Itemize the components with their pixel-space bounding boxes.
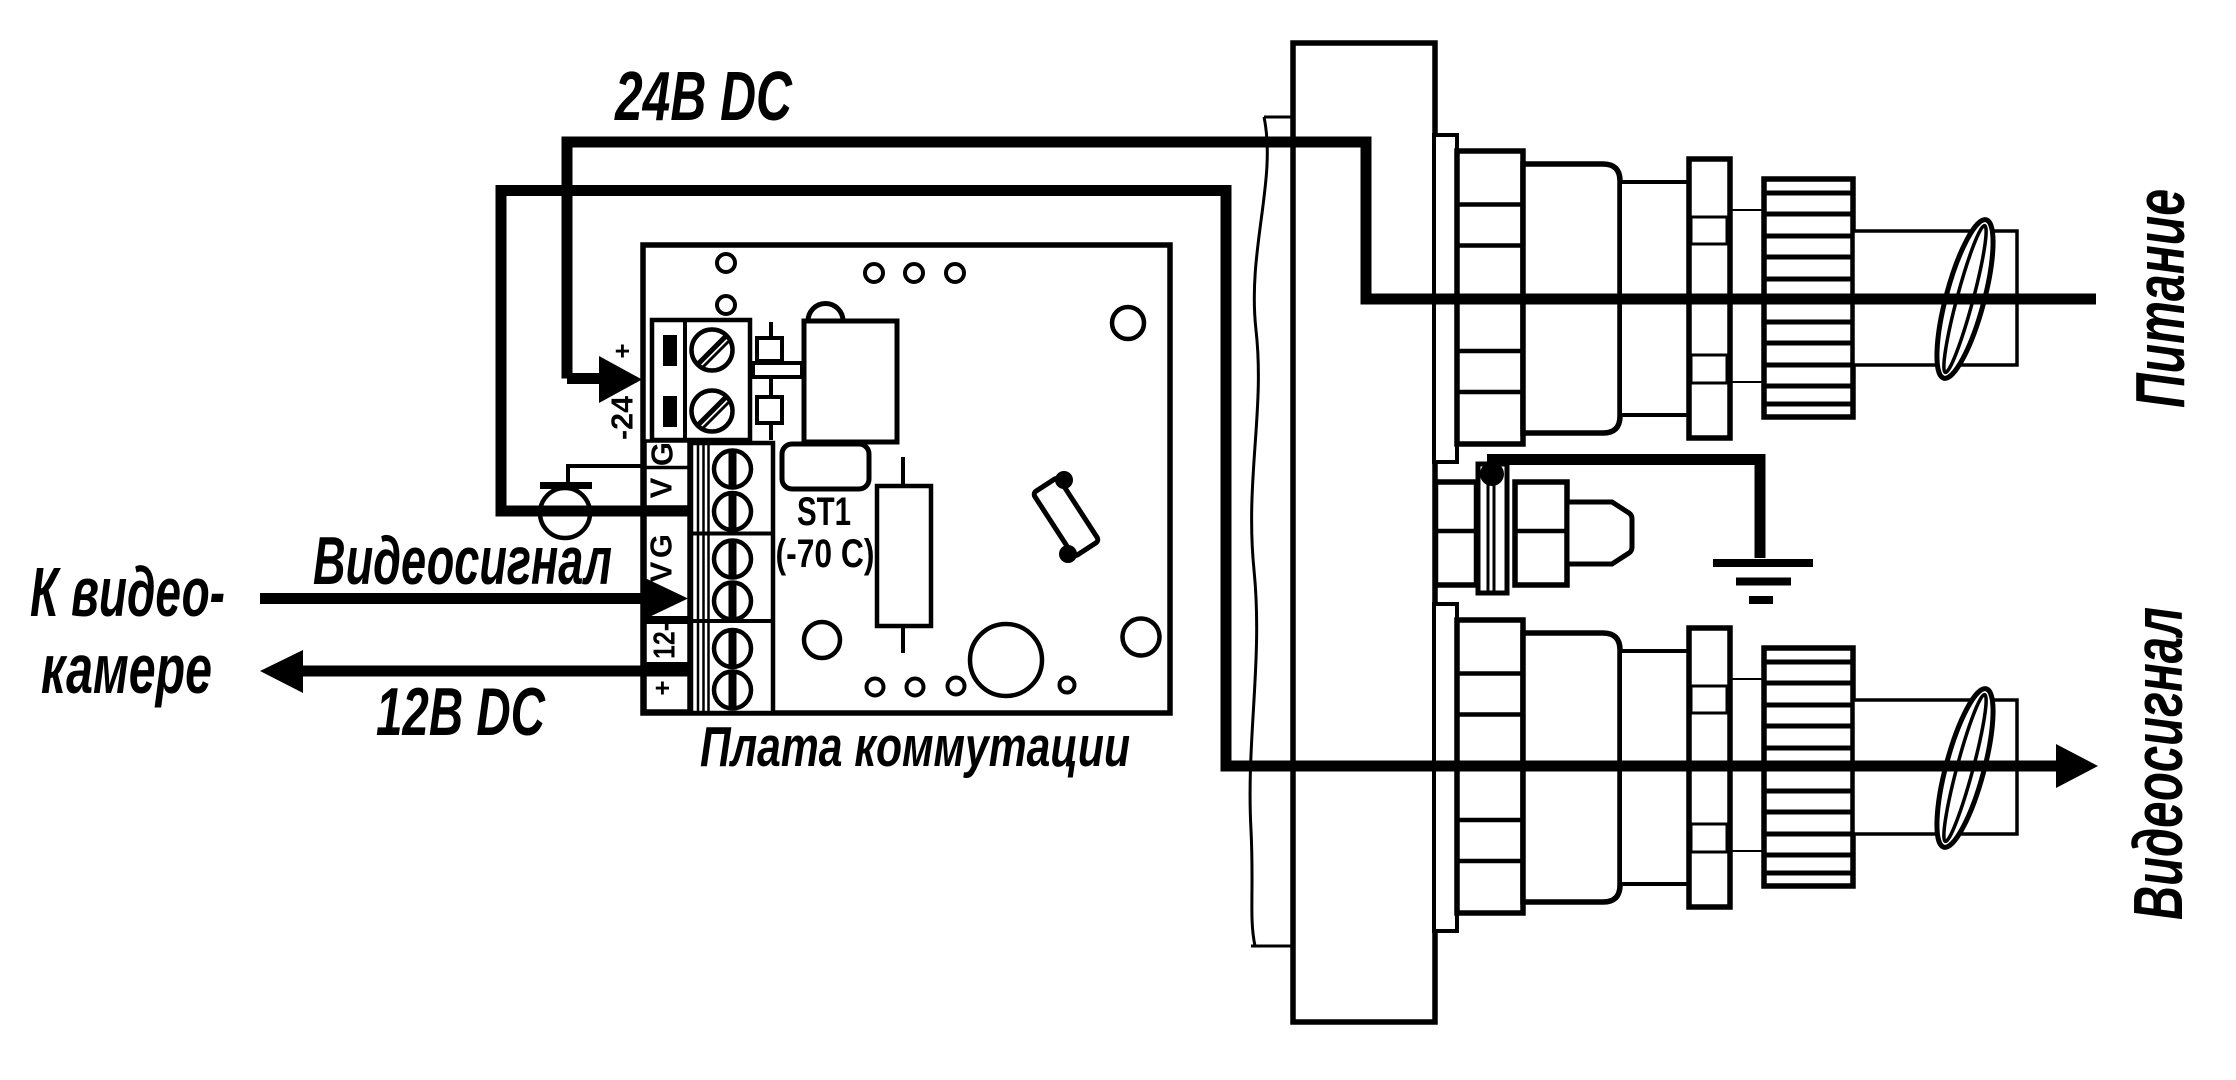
junction dot [1480, 462, 1504, 486]
svg-text:-24: -24 [605, 395, 640, 440]
svg-text:Плата коммутации: Плата коммутации [700, 715, 1130, 779]
screw X2-6 [714, 672, 751, 709]
hole top-right [1112, 307, 1144, 339]
shield clamp bar [540, 482, 592, 489]
flange ring [1689, 159, 1730, 438]
small hole near big [1060, 678, 1075, 693]
gland washer [1478, 464, 1507, 593]
hole left of big [804, 622, 840, 658]
cable tie loop [1925, 215, 2004, 383]
hole row top 2 [905, 264, 923, 282]
gland plug [1567, 502, 1632, 564]
thermostat ST1 body [782, 444, 869, 489]
terminal strip X2 screw block [691, 443, 773, 713]
thread spacer lines [1730, 210, 1764, 382]
hole bottom-right [1123, 619, 1160, 656]
cable [1853, 231, 2017, 365]
ground symbol [1713, 559, 1813, 604]
svg-text:+: + [607, 343, 637, 358]
svg-text:ST1: ST1 [797, 490, 851, 534]
terminal block X1 (24V power, two screws) [652, 320, 750, 440]
big hole bottom-center [970, 624, 1042, 696]
shield clamp G wire [568, 466, 645, 482]
svg-text:Видеосигнал: Видеосигнал [313, 523, 612, 599]
shield clamp ring [540, 488, 590, 538]
svg-text:(-70 C): (-70 C) [776, 532, 875, 576]
flange notch bottom [1691, 355, 1727, 383]
PCB board (Плата коммутации) [643, 245, 1170, 713]
front cylinder [1620, 182, 1692, 415]
hex nut [1457, 151, 1523, 444]
arrowhead Видеосигнал out (right) [2056, 744, 2098, 788]
svg-text:Видеосигнал: Видеосигнал [2119, 607, 2197, 920]
resistor R1 leads [901, 457, 905, 486]
screw X2-1 [714, 451, 751, 488]
mounting hole top-left a [717, 254, 735, 272]
knurled coupling nut [1764, 179, 1853, 417]
relay contact pads between X1 and relay [753, 322, 802, 440]
arrowhead into V terminal [645, 578, 688, 619]
svg-text:V: V [644, 477, 679, 498]
relay K1 [804, 304, 897, 443]
arrowhead into +24 terminal [599, 356, 642, 403]
connector Видеосигнал (video feed-through) [1434, 604, 2017, 931]
terminal strip X2 label column [645, 441, 689, 711]
screw X2-2 [714, 493, 751, 530]
hole row top 3 [946, 264, 964, 282]
hole bottom row 2 [907, 679, 924, 696]
hole bottom row 1 [867, 679, 884, 696]
svg-text:V: V [644, 561, 679, 582]
screw X1-1 [692, 330, 733, 371]
ground wire [1487, 460, 1760, 559]
hole bottom row 3 [948, 678, 965, 695]
gland hex left [1436, 482, 1477, 585]
svg-text:Питание: Питание [2121, 189, 2199, 408]
screw X1-2 [692, 391, 733, 432]
screw X2-5 [714, 630, 751, 667]
wire video signal (V terminal to bottom connector) [501, 191, 2058, 767]
wire 24В DC (+24V feed) [567, 142, 2096, 379]
connector body [1523, 164, 1620, 433]
mounting hole top-left b [717, 296, 735, 314]
svg-text:G: G [645, 442, 680, 466]
svg-text:К видео-: К видео- [30, 553, 225, 631]
hex nut facet lines [1457, 205, 1523, 393]
panel break (wavy tear line) [1250, 117, 1293, 946]
svg-text:+: + [647, 680, 677, 695]
screw X2-3 [714, 541, 751, 578]
arrowhead 12В DC (left) [260, 650, 303, 693]
cable gland ground stud on panel [1436, 462, 1633, 593]
gland hex right [1515, 482, 1567, 585]
knurl lines [1764, 193, 1853, 404]
svg-text:12В DC: 12В DC [376, 674, 546, 750]
svg-text:12-: 12- [647, 623, 682, 659]
flange notch top [1691, 217, 1727, 244]
svg-text:камере: камере [41, 630, 212, 708]
hole row top 1 [865, 264, 883, 282]
mounting panel (wall) [1293, 43, 1435, 1022]
screw X2-4 [714, 583, 751, 620]
mounting plate [1434, 135, 1457, 462]
wire 12В DC to camera [300, 666, 691, 677]
connector Питание (power feed-through) [1434, 135, 2017, 462]
svg-text:24В DC: 24В DC [614, 57, 793, 135]
resistor R1 [877, 486, 931, 626]
jumper component VD1 (tilted) [1033, 471, 1100, 563]
svg-text:G: G [644, 534, 679, 558]
wire Видеосигнал from camera [260, 593, 648, 604]
